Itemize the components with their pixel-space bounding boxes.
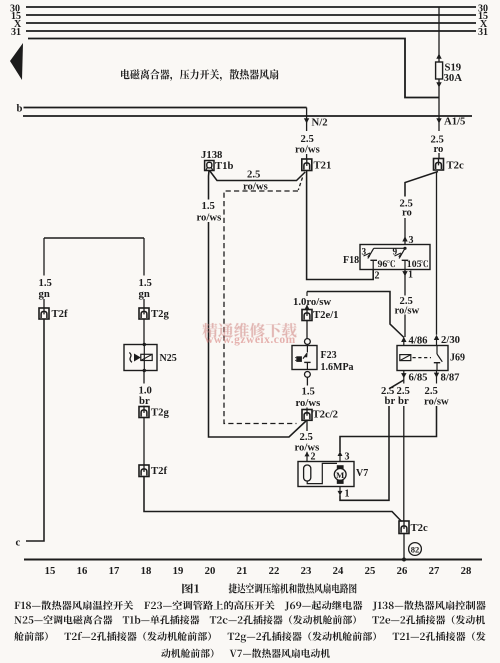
svg-text:1: 1 xyxy=(408,270,413,281)
svg-text:gn: gn xyxy=(139,288,150,300)
legend line 3 xyxy=(14,632,485,643)
wire J138 1.5 ro/ws upper segment xyxy=(208,171,211,200)
terminal node circle lower xyxy=(305,372,311,378)
svg-text:ro/ws: ro/ws xyxy=(295,144,320,156)
svg-text:T2f: T2f xyxy=(151,465,167,477)
wire label 1.5 ro/ws lower xyxy=(296,386,321,410)
watermark xyxy=(202,323,296,346)
wire 6/85 split xyxy=(389,380,404,389)
wire label 2.5 ro/ws lower xyxy=(295,431,320,454)
wire bus30 to fuse S19 xyxy=(438,7,440,62)
clutch N25 xyxy=(124,343,177,372)
svg-text:25: 25 xyxy=(365,565,376,577)
svg-text:27: 27 xyxy=(429,565,440,577)
svg-text:2/30: 2/30 xyxy=(441,334,460,346)
pressure switch F23 1.6MPa xyxy=(292,344,354,373)
wire to J69 4/86 xyxy=(404,315,406,338)
svg-text:A1/5: A1/5 xyxy=(444,116,465,128)
connector T21 xyxy=(302,159,332,172)
connector T2c ground xyxy=(399,521,428,534)
legend line 4 xyxy=(161,649,330,658)
svg-text:ro/ws: ro/ws xyxy=(295,442,320,454)
svg-text:T1b: T1b xyxy=(215,160,233,172)
connector T2f lower xyxy=(139,465,167,477)
svg-text:18: 18 xyxy=(141,565,152,577)
bus wire unlabeled with jog to fuse node xyxy=(28,39,439,98)
dashed control wire T21 to T2c/2 xyxy=(224,178,303,424)
svg-text:1.5: 1.5 xyxy=(302,386,315,398)
wire labels 2.5 br 2.5 br 2.5 ro/sw xyxy=(381,385,449,408)
wire J69 8/87 to V7 pin 3 xyxy=(340,406,437,452)
wire J138 1.5 ro/ws to T2c/2 xyxy=(209,222,307,437)
wire F18 pin1 to J69 4/86 upper xyxy=(402,270,413,296)
wire 6/85 to ground connector T2c xyxy=(403,406,405,521)
svg-text:N/2: N/2 xyxy=(312,117,328,129)
J69 terminal 8/87 xyxy=(434,371,460,384)
svg-text:T21: T21 xyxy=(314,160,332,172)
svg-text:15: 15 xyxy=(45,565,56,577)
wire label 2.5 ro xyxy=(431,134,444,156)
thermo switch F18 xyxy=(343,245,430,271)
svg-text:F23: F23 xyxy=(321,350,337,361)
svg-text:T2c: T2c xyxy=(447,160,464,172)
wire rail-b to node N/2 xyxy=(306,108,308,132)
J69 terminal 2/30 xyxy=(434,334,460,346)
svg-text:F18: F18 xyxy=(343,255,359,266)
wire fuse to node A1/5 xyxy=(438,88,440,132)
svg-text:T2c: T2c xyxy=(411,522,428,534)
svg-text:22: 22 xyxy=(269,565,280,577)
bus wire X xyxy=(14,19,488,30)
connector T2g lower xyxy=(139,406,169,419)
svg-text:82: 82 xyxy=(411,545,420,555)
svg-text:gn: gn xyxy=(39,288,50,300)
wire T2g to N25 xyxy=(143,319,145,345)
wire 1.5 gn left upper xyxy=(39,238,52,300)
wire T2e/1 to F23 xyxy=(306,321,308,339)
svg-text:br: br xyxy=(139,395,150,407)
svg-text:28: 28 xyxy=(461,565,472,577)
bus wire 15 xyxy=(11,11,488,22)
svg-text:br: br xyxy=(385,395,396,407)
wire T2c to F18 pin 3 upper xyxy=(405,172,438,197)
connector T1b xyxy=(205,160,234,172)
track numbers xyxy=(45,565,472,577)
svg-text:105: 105 xyxy=(407,259,422,270)
svg-text:30A: 30A xyxy=(444,72,463,84)
svg-text:b: b xyxy=(17,103,23,115)
wire T2g to T2f xyxy=(143,418,145,466)
connector T2c upper right xyxy=(434,159,464,172)
svg-text:1.6MPa: 1.6MPa xyxy=(321,362,354,373)
svg-text:c: c xyxy=(16,537,21,549)
wire label 1.5 ro/ws xyxy=(197,200,222,224)
fuse S19 30A xyxy=(436,54,463,88)
node branch to F23 and J69 xyxy=(307,292,404,338)
svg-text:31: 31 xyxy=(11,27,21,38)
svg-text:23: 23 xyxy=(301,565,312,577)
separator rail xyxy=(23,115,472,117)
svg-text:ro/sw: ro/sw xyxy=(395,305,420,317)
svg-text:31: 31 xyxy=(478,27,488,38)
wire to F18 pin 3 xyxy=(402,218,413,246)
svg-text:N25: N25 xyxy=(160,353,177,364)
terminal node circle upper xyxy=(305,339,311,345)
wire N25 to T2g 1.0 br xyxy=(139,371,152,408)
fan motor V7 xyxy=(298,462,368,487)
J69 terminal 4/86 xyxy=(401,335,428,347)
svg-text:J69: J69 xyxy=(450,353,465,364)
node N/2 xyxy=(304,117,328,129)
connector T2e/1 xyxy=(302,305,339,321)
svg-text:T2g: T2g xyxy=(151,407,169,419)
track rail xyxy=(24,558,482,560)
svg-text:8/87: 8/87 xyxy=(441,372,461,384)
connector T2f left xyxy=(39,299,68,320)
svg-text:1: 1 xyxy=(345,489,350,500)
bus wire 31 xyxy=(11,27,488,38)
svg-text:ro/ws: ro/ws xyxy=(197,212,222,224)
wire F23 to T2c/2 upper xyxy=(306,377,308,385)
earth point 82 xyxy=(409,543,422,556)
caption electromagnetic clutch pressure switch radiator fan xyxy=(121,69,278,81)
wire N25 branch top xyxy=(44,237,144,239)
connector T2c/2 xyxy=(302,408,338,421)
svg-text:www.gzweix.com: www.gzweix.com xyxy=(205,334,296,346)
node A1/5 xyxy=(436,116,465,128)
svg-text:T2c/2: T2c/2 xyxy=(313,409,339,421)
svg-text:26: 26 xyxy=(397,565,408,577)
svg-text:M: M xyxy=(336,470,345,480)
figure title xyxy=(182,583,356,593)
wire 1.5 gn right upper xyxy=(139,238,152,300)
bus wire 30 xyxy=(10,4,488,15)
svg-text:T2f: T2f xyxy=(52,308,68,320)
svg-text:T2e/1: T2e/1 xyxy=(313,309,339,321)
svg-text:V7: V7 xyxy=(356,468,368,479)
svg-text:2: 2 xyxy=(375,271,380,282)
connector T2g upper xyxy=(139,299,169,320)
svg-text:6/85: 6/85 xyxy=(409,372,428,384)
svg-text:3: 3 xyxy=(409,235,414,246)
page marker triangle xyxy=(10,43,23,80)
wire T2c/2 to V7 pin 2 stub xyxy=(306,420,308,431)
svg-text:ro/sw: ro/sw xyxy=(424,396,449,408)
V7 pin 1 lead xyxy=(338,487,350,500)
wire to connector T2c right xyxy=(438,153,440,159)
svg-text:20: 20 xyxy=(205,565,216,577)
svg-text:1.0ro/sw: 1.0ro/sw xyxy=(293,296,331,308)
wire label 2.5 ro mid xyxy=(400,198,413,219)
wire V7 pin 1 to br wire xyxy=(340,406,389,500)
wire T2f to ground connector xyxy=(144,477,402,522)
svg-text:17: 17 xyxy=(109,565,120,577)
wire T2f to terminal c xyxy=(16,319,45,549)
wire T2c to J69 2/30 xyxy=(436,172,438,335)
wire label 2.5 ro/sw xyxy=(395,295,420,317)
controller J138 label xyxy=(201,149,222,161)
legend line 2 xyxy=(14,615,485,624)
svg-text:24: 24 xyxy=(333,565,344,577)
svg-text:2.5: 2.5 xyxy=(247,169,260,181)
wire to connector T21 xyxy=(306,154,308,159)
svg-text:3: 3 xyxy=(345,452,350,463)
svg-text:16: 16 xyxy=(77,565,88,577)
wire stub to T2e/1 xyxy=(306,292,308,297)
wire T2c to earth point xyxy=(402,534,406,562)
svg-text:1.5: 1.5 xyxy=(202,200,215,212)
svg-text:96: 96 xyxy=(378,259,388,270)
wire label 1.0 ro/sw xyxy=(293,296,331,308)
wire label 2.5 ro/ws upper xyxy=(295,133,320,156)
svg-text:br: br xyxy=(398,395,409,407)
svg-text:T2g: T2g xyxy=(151,308,169,320)
wire T1b to T21 2.5 ro/ws xyxy=(210,169,306,193)
svg-text:ro: ro xyxy=(402,207,412,219)
V7 pin 2 lead xyxy=(305,452,316,463)
relay J69 xyxy=(397,346,465,371)
J69 terminal 6/85 xyxy=(401,371,427,384)
legend line 1 xyxy=(14,601,485,611)
svg-text:21: 21 xyxy=(237,565,248,577)
svg-text:4/86: 4/86 xyxy=(409,335,429,347)
svg-text:ro/ws: ro/ws xyxy=(296,397,321,409)
V7 pin 3 lead xyxy=(338,451,350,462)
wire T21 to F18 pin 2 xyxy=(307,171,380,282)
svg-text:19: 19 xyxy=(173,565,184,577)
rail b xyxy=(17,103,307,115)
